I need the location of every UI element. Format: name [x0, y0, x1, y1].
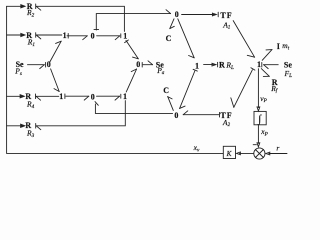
svg-text:mt: mt	[282, 41, 289, 51]
source Se (supply pressure P_s)	[14, 60, 24, 77]
resistor R_f (friction)	[270, 78, 279, 94]
capacitor C (upper)	[166, 34, 172, 43]
bond: top 0 to TF A1	[182, 12, 219, 17]
resistor R2	[26, 2, 35, 18]
node: 0 junction (upper middle)	[91, 31, 95, 40]
node: 1 junction (middle, x=196)	[195, 61, 199, 70]
svg-text:0: 0	[175, 10, 179, 19]
svg-text:1: 1	[63, 31, 67, 40]
bond: right 1 down to TF A2	[231, 68, 255, 108]
bond: lower 1 (x=125) up to 0 junction (P_a vent)	[126, 69, 136, 92]
source Se (load force F_L)	[284, 61, 293, 80]
svg-text:0: 0	[91, 31, 95, 40]
bond: 1 junction to R3 (L-shaped)	[36, 101, 126, 130]
bond: bottom 0 to lower C	[168, 97, 174, 111]
source Se (atmospheric pressure P_a)	[156, 60, 165, 76]
node: 1 junction (upper left)	[63, 31, 67, 40]
svg-text:A1: A1	[222, 20, 231, 30]
bond: lower 0 to lower 1 (x=125)	[97, 94, 121, 100]
svg-text:0: 0	[136, 60, 140, 69]
svg-text:0: 0	[174, 111, 178, 120]
svg-text:1: 1	[195, 61, 199, 70]
wire: reference input r into summer	[266, 152, 287, 155]
node: 0 junction (left, after Se)	[47, 60, 51, 69]
wire: velocity signal v_P from right 1 to integrator	[257, 69, 260, 111]
summing junction (circle with cross)	[254, 148, 265, 159]
svg-text:xv: xv	[193, 143, 200, 153]
svg-text:1: 1	[59, 92, 63, 101]
svg-text:R4: R4	[26, 100, 35, 110]
svg-text:R3: R3	[26, 129, 35, 139]
svg-text:FL: FL	[284, 69, 293, 79]
svg-text:K: K	[226, 150, 233, 158]
bond: TF A1 down to right 1	[233, 21, 254, 58]
bond: 1 junction to R1	[36, 33, 62, 39]
node: 1 junction (upper, x=125)	[123, 31, 127, 40]
resistor R3	[25, 121, 34, 139]
svg-text:R: R	[219, 60, 225, 69]
node: 1 junction (lower, x=125)	[123, 92, 127, 101]
node: 1 junction (right, x=259)	[257, 60, 261, 69]
resistor R_L (leakage)	[219, 60, 234, 71]
bond: upper 1 (x=125) down to vent 0	[125, 40, 139, 59]
inertia I (m_t)	[277, 41, 290, 51]
svg-text:C: C	[166, 34, 172, 43]
svg-text:R1: R1	[27, 38, 36, 48]
node: 0 junction (vent, x=139)	[136, 60, 140, 69]
bond: Se F_L to right 1	[262, 62, 278, 68]
bond: top 0 down to middle 1	[178, 19, 194, 58]
bond: vent 0 to Se Pa	[142, 61, 152, 67]
bond: upper 1 to upper 0	[67, 34, 87, 40]
label minus sign at summer	[253, 144, 256, 146]
bond: Se to 0 junction	[28, 62, 46, 68]
bond: lower 1 to lower 0	[65, 94, 89, 100]
svg-text:R2: R2	[26, 8, 35, 18]
capacitor C (lower)	[163, 86, 169, 95]
svg-text:RL: RL	[225, 61, 234, 71]
integrator block	[254, 111, 266, 125]
label x_P	[260, 127, 268, 137]
svg-text:r: r	[276, 143, 279, 152]
svg-text:C: C	[163, 86, 169, 95]
svg-text:1: 1	[123, 92, 127, 101]
bond: TF A2 to bottom 0	[183, 111, 219, 117]
bond: right 1 to R_f	[261, 69, 269, 77]
gain block K	[223, 146, 235, 158]
transformer TF (A2)	[220, 111, 232, 128]
label v_P	[260, 94, 267, 104]
bond: upper 0 to upper 1 (x=125)	[97, 34, 121, 40]
wire: position signal x_P from integrator to summer	[257, 125, 260, 147]
resistor R1	[26, 31, 35, 48]
node: 1 junction (lower left)	[59, 92, 63, 101]
wire: signal arrow into R3	[7, 124, 25, 127]
svg-text:1: 1	[123, 31, 127, 40]
bond: upper 0 to top 0 (L-shaped over)	[94, 10, 171, 30]
bond: 0 to upper 1	[50, 41, 61, 61]
label r	[276, 143, 279, 152]
svg-text:I: I	[277, 42, 280, 51]
transformer TF (A1)	[220, 11, 232, 31]
wire: x_v feedback line (bottom horizontal and left vertical)	[7, 6, 224, 153]
bond: middle 1 to R_L	[204, 62, 218, 67]
bond: middle 1 down to bottom 0	[180, 69, 198, 108]
wire: signal arrow into R1	[7, 33, 25, 36]
bond: 0 to lower 1	[51, 69, 60, 92]
svg-text:vP: vP	[260, 94, 267, 104]
node: 0 junction (top, x=176)	[175, 10, 179, 19]
bond: 1 junction to R2 (L-shaped)	[36, 4, 125, 31]
wire: signal arrow into R4	[7, 95, 25, 98]
wire: summer to gain K	[236, 152, 253, 155]
svg-text:1: 1	[257, 60, 261, 69]
node: 0 junction (bottom, x=177)	[174, 111, 178, 120]
bond: right 1 to I	[262, 50, 272, 61]
resistor R4	[25, 92, 34, 110]
bond: bottom 0 to lower middle 0 (L-shaped)	[95, 102, 173, 114]
label x_v	[193, 143, 200, 153]
bond: top 0 to upper C	[170, 19, 175, 29]
svg-text:∫: ∫	[257, 114, 262, 125]
svg-text:TF: TF	[220, 11, 232, 20]
bond: 1 junction to R4	[36, 94, 59, 100]
svg-text:0: 0	[91, 92, 95, 101]
node: 0 junction (lower middle)	[91, 92, 95, 101]
wire: signal arrow into R2	[7, 5, 25, 8]
svg-text:xP: xP	[260, 127, 268, 137]
